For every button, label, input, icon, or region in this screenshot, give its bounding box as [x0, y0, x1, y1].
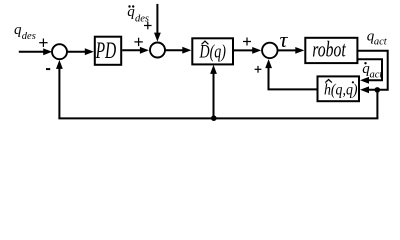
wire feedback bottom line: [58, 117, 378, 119]
wire Dhat to S3: [234, 47, 261, 54]
svg-text:q: q: [14, 22, 22, 38]
plus sign at S1 input: [39, 39, 47, 47]
plus sign at S2 vertical input: [144, 22, 152, 30]
svg-text:des: des: [22, 31, 36, 42]
svg-text:robot: robot: [312, 37, 346, 62]
wire bottom up into Dhat block: [210, 65, 217, 119]
block hhat(q,qdot): [318, 76, 360, 101]
wire S3 to robot: [278, 47, 305, 54]
summing junction S1: [52, 44, 67, 59]
block Dhat(q): [192, 38, 233, 64]
wire input to summing junction S1: [19, 48, 52, 55]
wire qdot_act from robot: right, down, left into hhat: [357, 59, 382, 83]
block robot: [305, 37, 357, 63]
wire hhat output to S3: [265, 59, 317, 89]
wire q_act from robot: right, down, left into hhat: [357, 51, 387, 93]
summing junction S3: [262, 43, 278, 59]
minus sign at S1 feedback input: [46, 68, 50, 70]
wire S1 to PD: [67, 48, 94, 55]
svg-text:τ: τ: [280, 27, 289, 52]
wire PD to S2: [122, 47, 149, 54]
node q_des label: [14, 22, 36, 42]
node qddot_des label: [127, 4, 149, 24]
block PD: [95, 37, 121, 65]
node qdot_act label: [362, 61, 383, 80]
plus sign at S2 horizontal input: [134, 38, 142, 46]
svg-text:D(q): D(q): [199, 42, 226, 63]
junction dot on bottom line: [211, 115, 217, 121]
plus sign at S3 horizontal input: [243, 38, 251, 46]
wire feedback down from junction dot: [376, 90, 378, 118]
junction dot on q_act feedback: [375, 87, 381, 93]
summing junction S2: [150, 43, 165, 58]
wire bottom up into S1: [56, 60, 63, 119]
svg-text:des: des: [135, 14, 149, 25]
plus sign at S3 vertical input: [255, 66, 262, 73]
svg-text:PD: PD: [95, 38, 117, 63]
svg-text:act: act: [374, 37, 388, 48]
svg-text:h(q,q): h(q,q): [324, 82, 358, 99]
node q_act label: [367, 28, 388, 47]
wire qddot_des down into S2: [154, 4, 161, 42]
wire S2 to Dhat block: [165, 47, 191, 54]
